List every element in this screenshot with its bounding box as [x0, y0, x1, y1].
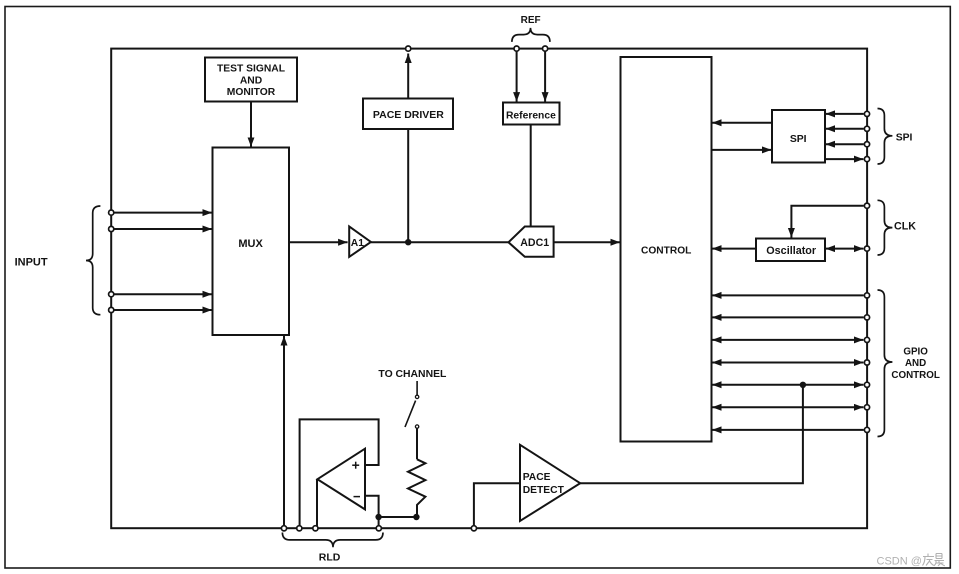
svg-text:TEST SIGNAL: TEST SIGNAL [217, 63, 285, 74]
svg-text:GPIO: GPIO [903, 346, 928, 357]
svg-text:MONITOR: MONITOR [227, 87, 276, 98]
svg-text:ADC1: ADC1 [520, 237, 549, 249]
svg-text:REF: REF [521, 15, 541, 26]
svg-text:CLK: CLK [894, 221, 916, 233]
svg-text:AND: AND [240, 75, 262, 86]
svg-text:CONTROL: CONTROL [641, 246, 691, 257]
svg-text:CSDN @: CSDN @ [877, 555, 922, 567]
svg-text:A1: A1 [351, 238, 364, 249]
svg-text:Reference: Reference [506, 111, 556, 122]
svg-text:SPI: SPI [790, 134, 807, 145]
svg-text:AND: AND [905, 358, 926, 369]
svg-text:PACE: PACE [523, 472, 551, 483]
svg-text:DETECT: DETECT [523, 485, 565, 496]
svg-text:INPUT: INPUT [15, 257, 48, 269]
svg-text:CONTROL: CONTROL [891, 370, 939, 381]
svg-text:MUX: MUX [238, 238, 263, 250]
svg-text:SPI: SPI [896, 133, 913, 144]
svg-text:RLD: RLD [319, 551, 341, 563]
svg-text:TO CHANNEL: TO CHANNEL [378, 369, 447, 380]
svg-text:Oscillator: Oscillator [766, 245, 817, 257]
svg-text:PACE DRIVER: PACE DRIVER [373, 109, 444, 121]
